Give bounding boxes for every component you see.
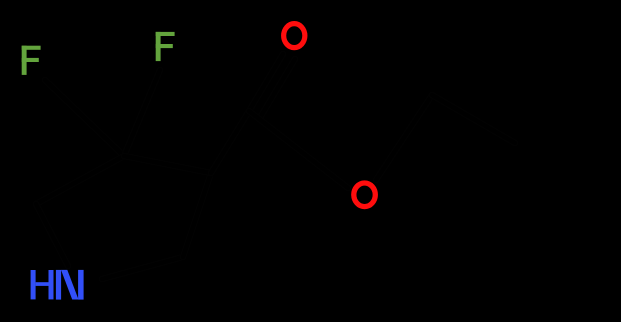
bond C2-N1 (ring, to HN label) (36, 204, 68, 266)
atom O2 (ester oxygen label, red) (354, 183, 376, 207)
bond N1-C5 (ring, from HN label) (102, 257, 183, 279)
bond C4-C3 (ring) (124, 156, 211, 173)
bond C4-C6 (to carbonyl carbon) (211, 111, 249, 173)
atom F1 (fluorine label, green) (22, 46, 41, 75)
bond C3-C2 (ring) (36, 156, 124, 204)
atom N1 (ring nitrogen label N, blue) (56, 270, 84, 300)
bond C6-O2 (ester single bond) (249, 111, 348, 188)
bond O2-C7 (ethyl CH2) (376, 95, 432, 180)
bond C5-C4 (ring) (183, 173, 211, 257)
double bond C6=O1 outer line (249, 54, 283, 111)
bond C7-C8 (ethyl CH3) (432, 95, 515, 143)
bond C3-F1 (to fluorine F1) (45, 80, 124, 156)
atom F2 (fluorine label, green) (156, 32, 175, 61)
double bond C6=O1 inner line (261, 59, 295, 116)
bond C3-F2 (to fluorine F2) (124, 70, 160, 156)
atom O1 (carbonyl oxygen label, red) (284, 24, 305, 48)
atom N1 hydrogen label H (blue) (31, 270, 54, 299)
